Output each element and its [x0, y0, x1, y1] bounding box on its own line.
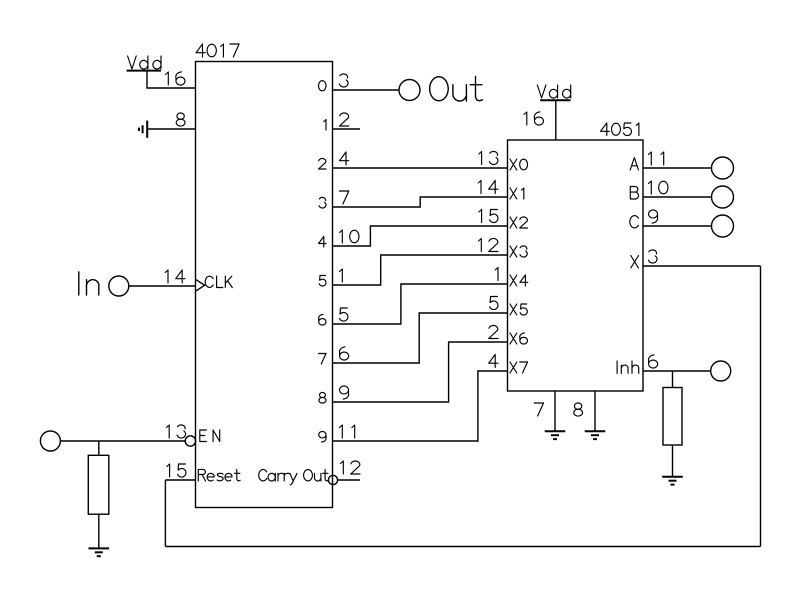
terminal T3 Out — [399, 80, 420, 101]
clock triangle U1 — [196, 279, 205, 291]
pin name 0 (U1) — [319, 81, 327, 91]
wire U1 Q6 to U2 X4 — [333, 284, 508, 324]
pin number 6 (U1 Q7) — [340, 347, 349, 360]
ground GND2 — [662, 477, 683, 485]
ground GND4 — [585, 431, 606, 439]
wire U2 A to terminal — [643, 167, 712, 169]
wire U1 pin8 to ground — [147, 128, 195, 130]
wire T1 to U1 pin14 — [129, 285, 196, 287]
pin number 8 (U2 Vss) — [574, 403, 583, 416]
pin name X2 (U2) — [510, 217, 528, 228]
pin number 1 (U1 Q5) — [340, 269, 343, 282]
ground GND3 — [545, 431, 566, 439]
terminal T4 (A) — [712, 157, 734, 179]
wire X net right vertical — [760, 266, 762, 547]
wire U1 Q3 to U2 X1 — [333, 197, 508, 207]
ground GND1 — [89, 548, 110, 556]
pin name C (U2) — [630, 216, 639, 228]
pin name X (U2) — [631, 256, 639, 269]
wire R2 to GND2 — [672, 445, 674, 477]
pin number 2 (U1 Q1) — [340, 113, 349, 126]
wire U1 Q7 to U2 X5 — [333, 313, 508, 363]
pin name EN — [200, 430, 220, 442]
pin name 8 (U1) — [319, 392, 326, 403]
pin number 14 (U2 X1) — [478, 181, 498, 194]
terminal T6 (C) — [712, 215, 734, 237]
pin name 2 (U1) — [319, 159, 327, 170]
pin number 13 (U2 X0) — [479, 151, 498, 164]
pin name 4 (U1) — [319, 237, 327, 248]
wire U1 Q8 to U2 X6 — [333, 342, 508, 402]
wire U2 B to terminal — [643, 196, 712, 198]
wire U1 Q2 to U2 X0 — [333, 167, 508, 169]
inversion bubble U1 pin12 — [328, 475, 337, 484]
pin number 7 (U1 Q3) — [340, 191, 349, 204]
terminal T5 (B) — [712, 186, 734, 208]
pin number 9 (U1 Q8) — [340, 386, 349, 399]
wire Inh net to R2 — [672, 371, 674, 388]
IC U2 4051 body — [508, 140, 644, 391]
wire U1 Q5 to U2 X3 — [333, 255, 508, 285]
wire U1 pin2 stub — [333, 128, 361, 130]
pin number 3 (U1 Q0) — [340, 74, 349, 87]
wire R1 to GND1 — [98, 514, 100, 548]
pin name Reset — [198, 469, 240, 481]
resistor R1 — [88, 455, 109, 514]
pin number 16 (U1 Vdd) — [166, 72, 186, 85]
pin number 12 (U2 X3) — [479, 239, 499, 252]
wire U1 pin12 stub — [338, 479, 360, 481]
pin name Carry Out — [259, 469, 329, 485]
pin number 14 (U1 CLK) — [165, 270, 185, 283]
wire U1 pin3 to Out terminal — [333, 89, 400, 91]
pin number 7 (U2 Vee) — [534, 403, 543, 416]
wire U2 X output — [643, 265, 761, 267]
pin number 15 (U2 X2) — [479, 210, 498, 223]
pin number 6 (U2 Inh) — [649, 355, 658, 368]
pin name X7 (U2) — [510, 362, 528, 373]
wire EN net to R1 — [98, 441, 100, 455]
pin name X1 (U2) — [510, 188, 524, 199]
terminal T2 EN input — [40, 431, 60, 451]
pin name X3 (U2) — [510, 246, 527, 257]
wire U1 Reset pin — [165, 479, 195, 481]
wire U1 Q4 to U2 X2 — [333, 226, 508, 246]
pin number 5 (U2 X5) — [490, 297, 498, 310]
resistor R2 — [663, 388, 682, 446]
pin number 4 (U2 X7) — [489, 355, 498, 368]
pin number 11 (U1 Q9) — [340, 425, 355, 438]
pin number 15 (U1 Reset) — [167, 464, 186, 477]
pin number 3 (U2 X) — [649, 250, 658, 263]
label In — [79, 272, 99, 295]
wire reset net vertical — [164, 480, 166, 547]
label U1 value 4017 — [196, 44, 239, 57]
label Out — [430, 77, 483, 102]
pin number 8 (U1 Vss) — [176, 113, 185, 126]
wire reset net bottom run — [165, 546, 760, 548]
pin name 7 (U1) — [319, 354, 327, 365]
pin number 10 (U1 Q4) — [340, 230, 360, 243]
terminal T1 In — [109, 276, 129, 296]
ground GND-A sideways (U1 pin8) — [139, 121, 147, 138]
pin number 12 (U1 Carry Out) — [341, 461, 361, 474]
pin name X5 (U2) — [510, 304, 527, 315]
pin name X6 (U2) — [510, 333, 528, 344]
terminal T7 (Inh) — [711, 361, 731, 381]
wire Vdd2 to U2 pin16 — [555, 100, 557, 140]
pin name 3 (U1) — [319, 198, 326, 209]
wire U2 pin8 to ground — [594, 391, 596, 431]
label U2 value 4051 — [601, 123, 639, 136]
inversion bubble U1 pin13 EN — [185, 436, 195, 446]
power Vdd2 symbol — [537, 85, 570, 100]
pin name A (U2) — [630, 158, 638, 171]
pin number 2 (U2 X6) — [489, 326, 498, 339]
wire T2 to U1 EN — [60, 440, 185, 442]
pin number 5 (U1 Q6) — [340, 308, 348, 321]
pin name 6 (U1) — [319, 314, 326, 325]
pin number 9 (U2 C) — [649, 210, 658, 223]
pin number 11 (U2 A) — [649, 152, 664, 165]
wire U1 Q9 to U2 X7 — [333, 371, 508, 441]
pin number 1 (U2 X4) — [495, 268, 498, 281]
pin name 9 (U1) — [319, 432, 326, 443]
pin name 1 (U1) — [324, 120, 326, 131]
wire Vdd1 to U1 pin16 — [147, 71, 196, 88]
pin name CLK — [205, 276, 232, 287]
pin name X4 (U2) — [510, 275, 528, 286]
pin number 13 (U1 EN) — [166, 425, 185, 438]
pin number 16 (U2 Vdd) — [524, 112, 544, 125]
pin name 5 (U1) — [319, 276, 326, 287]
pin name Inh (U2) — [617, 361, 639, 374]
wire U2 C to terminal — [643, 225, 712, 227]
power Vdd1 symbol — [127, 56, 161, 71]
wire U2 Inh to terminal — [643, 370, 711, 372]
IC U1 4017 body — [196, 62, 333, 508]
pin name X0 (U2) — [510, 159, 528, 170]
pin name B (U2) — [630, 187, 638, 200]
pin number 4 (U1 Q2) — [340, 152, 349, 165]
wire U2 pin7 to ground — [554, 391, 556, 431]
pin number 10 (U2 B) — [649, 181, 669, 194]
